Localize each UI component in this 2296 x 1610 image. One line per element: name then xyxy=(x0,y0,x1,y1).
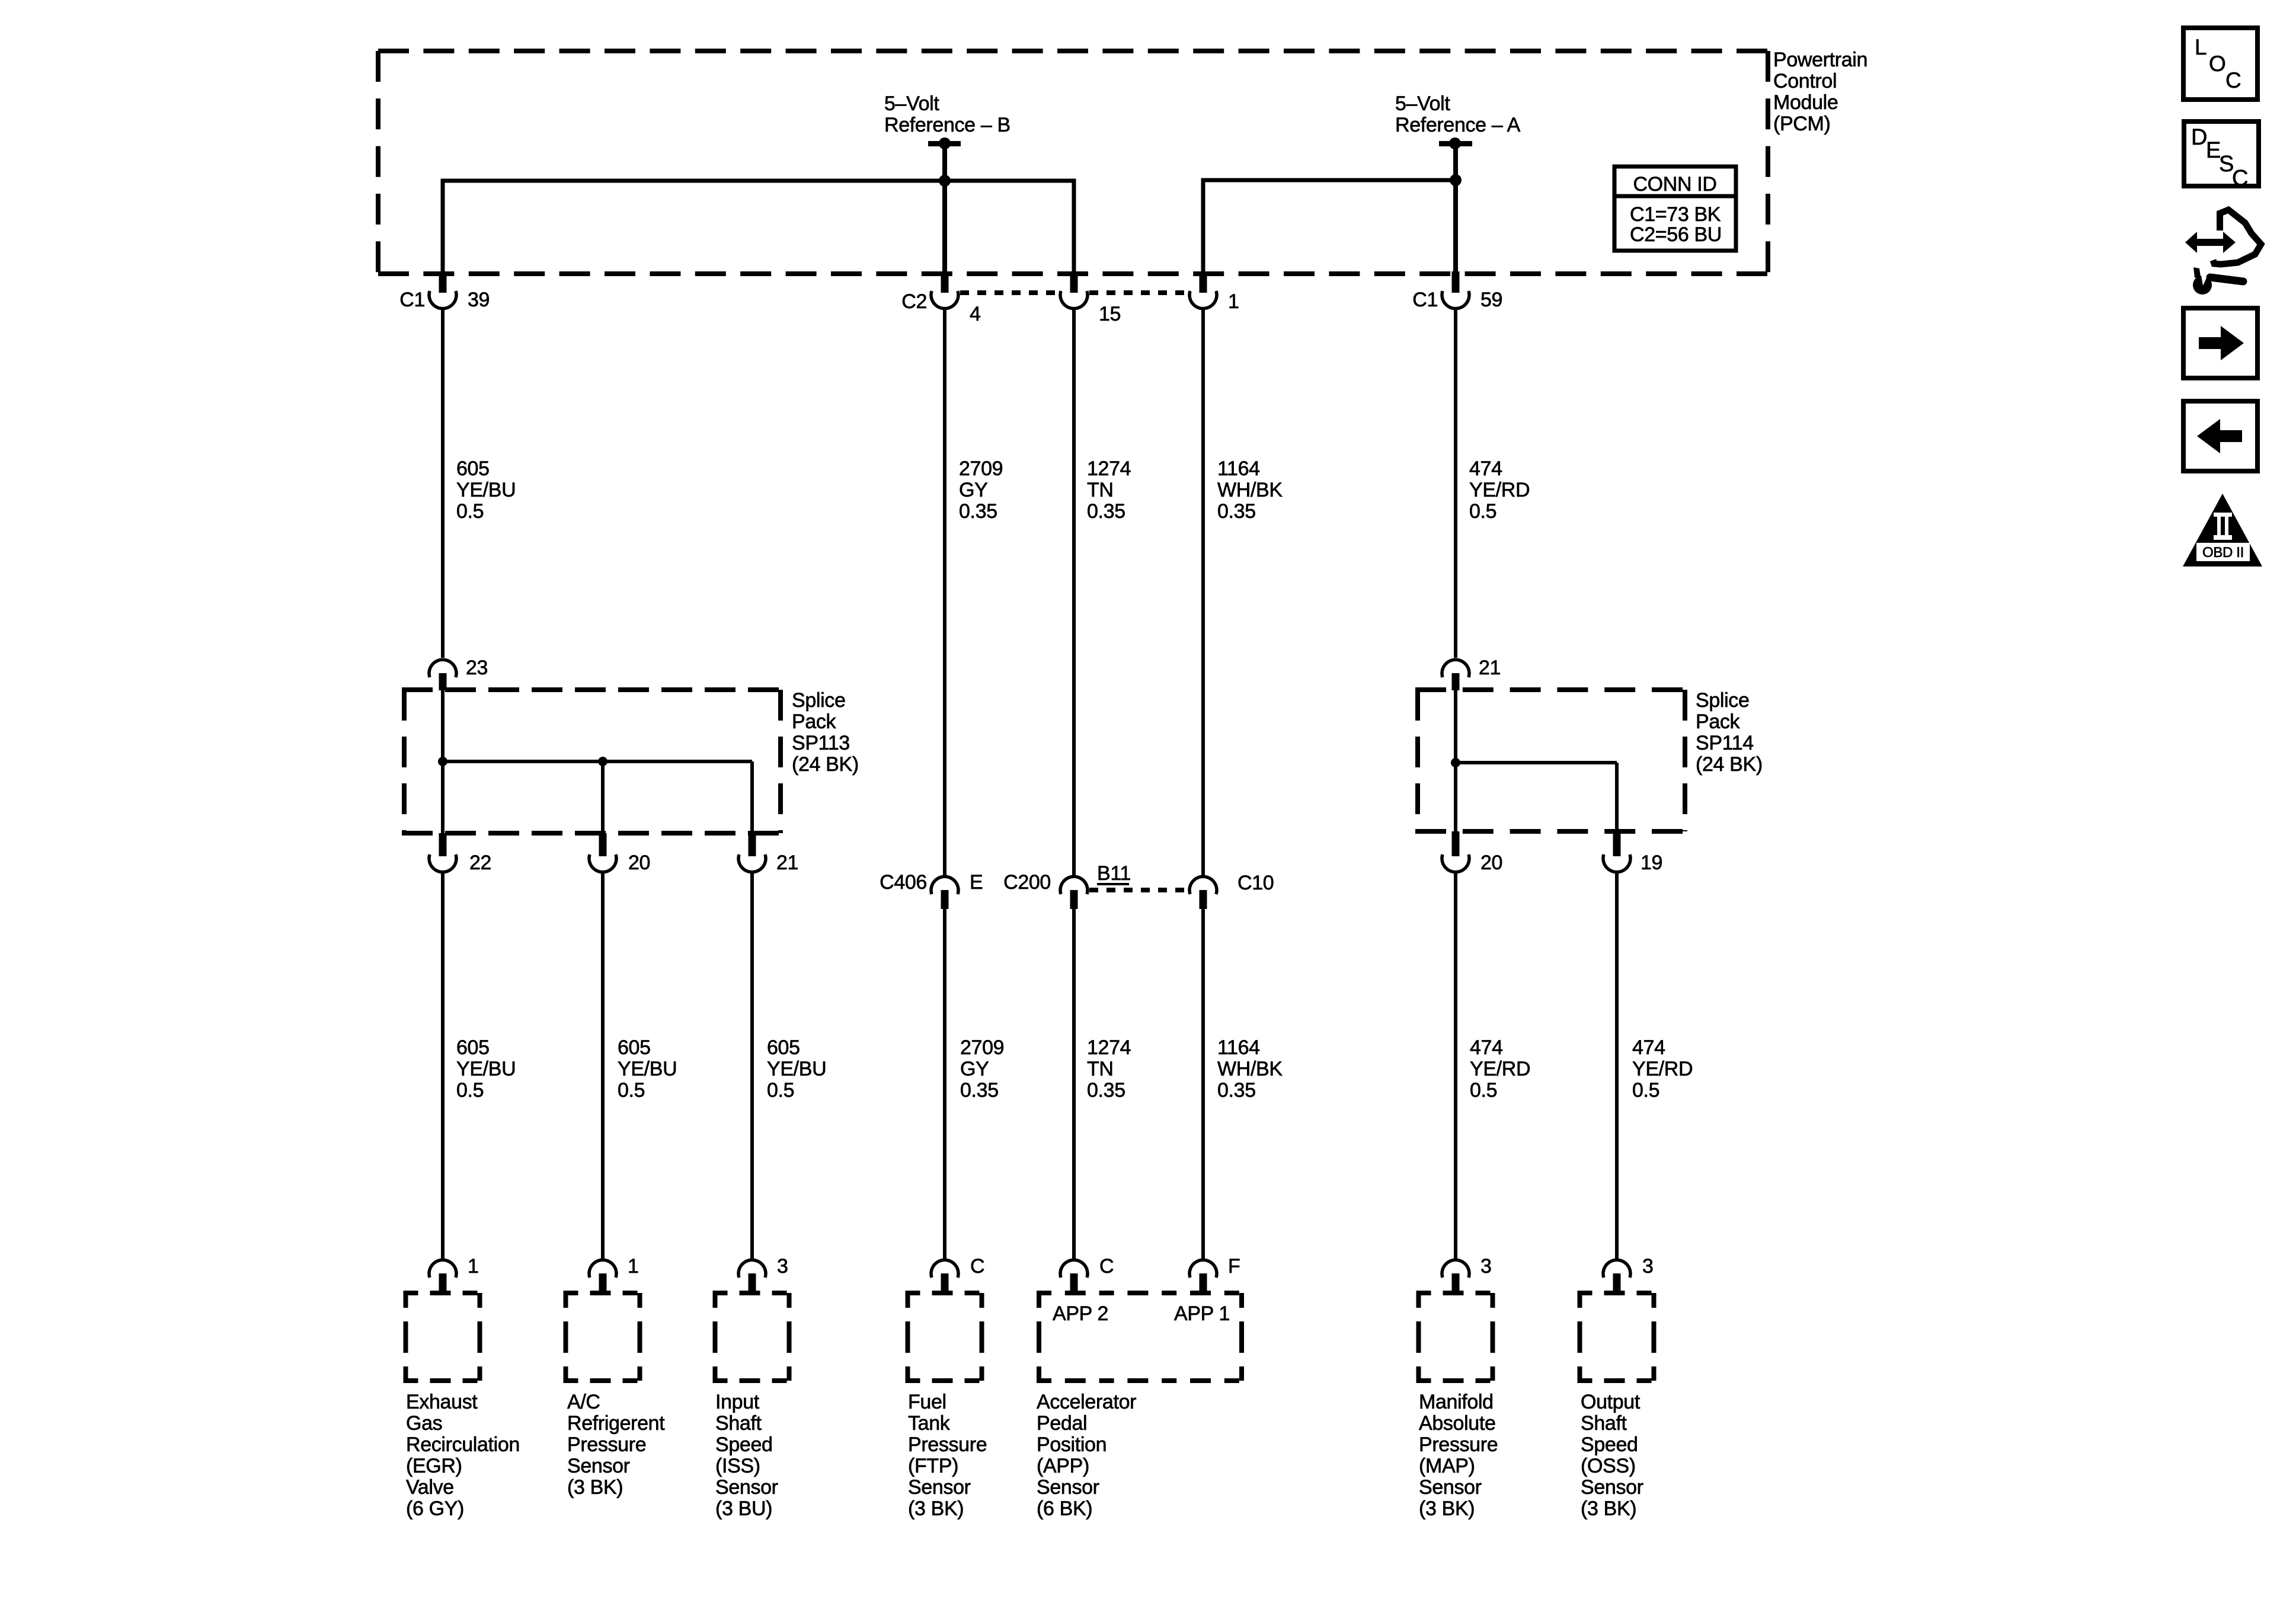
svg-text:C: C xyxy=(2232,166,2248,191)
svg-text:Recirculation: Recirculation xyxy=(406,1433,520,1456)
svg-text:39: 39 xyxy=(468,289,490,311)
svg-text:Accelerator: Accelerator xyxy=(1037,1391,1136,1413)
ISS sensor label xyxy=(715,1391,778,1520)
svg-text:YE/RD: YE/RD xyxy=(1469,479,1530,501)
svg-text:0.35: 0.35 xyxy=(1217,500,1256,523)
svg-text:0.35: 0.35 xyxy=(1087,500,1125,523)
svg-text:SP113: SP113 xyxy=(792,732,850,754)
svg-text:Gas: Gas xyxy=(406,1412,442,1435)
svg-text:(3 BK): (3 BK) xyxy=(908,1497,964,1520)
svg-text:WH/BK: WH/BK xyxy=(1217,1058,1283,1080)
inline connector C10 xyxy=(1189,876,1217,909)
wire label 605 YE/BU 0.5 (upper) xyxy=(456,457,516,523)
svg-text:Pack: Pack xyxy=(1696,710,1741,733)
splice pack SP114 dashed box xyxy=(1415,690,1687,831)
svg-text:474: 474 xyxy=(1470,1036,1503,1059)
svg-text:C: C xyxy=(2225,68,2241,92)
svg-text:21: 21 xyxy=(776,852,798,874)
wire label 1274 TN 0.35 (upper) xyxy=(1087,457,1131,523)
svg-text:C2: C2 xyxy=(901,290,927,313)
svg-text:(24 BK): (24 BK) xyxy=(792,753,859,776)
svg-text:(EGR): (EGR) xyxy=(406,1455,462,1477)
PCM connector pin 4 at x=1594 xyxy=(931,271,958,309)
Powertrain Control Module (PCM) dashed enclosure xyxy=(378,51,1768,274)
svg-text:Splice: Splice xyxy=(1696,689,1750,712)
svg-text:TN: TN xyxy=(1087,1058,1114,1080)
svg-text:B11: B11 xyxy=(1097,862,1131,885)
OBD II triangle icon xyxy=(2183,494,2262,566)
dotted connector link B11 to C10 xyxy=(1089,888,1188,892)
back arrow icon box xyxy=(2183,401,2257,471)
svg-text:(3 BK): (3 BK) xyxy=(567,1476,623,1499)
svg-text:Position: Position xyxy=(1037,1433,1107,1456)
wire label 474 YE/RD 0.5 (MAP) xyxy=(1470,1036,1530,1102)
svg-text:YE/RD: YE/RD xyxy=(1632,1058,1693,1080)
svg-text:474: 474 xyxy=(1632,1036,1665,1059)
wire label 1164 WH/BK 0.35 (lower) xyxy=(1217,1036,1283,1102)
svg-text:Sensor: Sensor xyxy=(1419,1476,1482,1499)
svg-text:Manifold: Manifold xyxy=(1419,1391,1494,1413)
svg-text:F: F xyxy=(1228,1255,1240,1278)
svg-text:(3 BU): (3 BU) xyxy=(715,1497,772,1520)
svg-text:(PCM): (PCM) xyxy=(1773,113,1830,135)
svg-text:(3 BK): (3 BK) xyxy=(1419,1497,1475,1520)
splice pack SP113 label xyxy=(792,689,859,776)
svg-text:23: 23 xyxy=(466,657,488,679)
5-Volt Reference B power feed symbol xyxy=(928,137,961,274)
CONN ID table xyxy=(1614,167,1736,251)
FTP sensor label xyxy=(908,1391,987,1520)
svg-text:3: 3 xyxy=(777,1255,788,1278)
EGR valve label xyxy=(406,1391,520,1520)
svg-text:Exhaust: Exhaust xyxy=(406,1391,478,1413)
svg-text:Shaft: Shaft xyxy=(715,1412,762,1435)
svg-text:Output: Output xyxy=(1581,1391,1641,1413)
splice output connector pin 19 xyxy=(1603,831,1630,872)
svg-text:605: 605 xyxy=(456,1036,490,1059)
svg-text:(OSS): (OSS) xyxy=(1581,1455,1636,1477)
wire: 5V ref B bus to pins 39 / 4 / 15 xyxy=(443,175,1074,274)
svg-text:YE/RD: YE/RD xyxy=(1470,1058,1530,1080)
wire label 1164 WH/BK 0.35 (upper) xyxy=(1217,457,1283,523)
svg-text:605: 605 xyxy=(456,457,490,480)
svg-text:C1: C1 xyxy=(1412,289,1438,311)
svg-text:C200: C200 xyxy=(1003,871,1051,894)
wire 1274 TN from 15 to C200 pin B11 xyxy=(1072,309,1076,876)
svg-text:Speed: Speed xyxy=(1581,1433,1638,1456)
svg-text:Absolute: Absolute xyxy=(1419,1412,1496,1435)
svg-text:Refrigerent: Refrigerent xyxy=(567,1412,665,1435)
svg-text:C2=56 BU: C2=56 BU xyxy=(1630,223,1722,246)
svg-text:0.5: 0.5 xyxy=(456,500,484,523)
wire 605 YE/BU from pin 20 to A/C sensor xyxy=(601,872,605,1260)
svg-text:Pressure: Pressure xyxy=(567,1433,646,1456)
DESC icon box xyxy=(2184,121,2259,191)
5-Volt Reference A power feed symbol xyxy=(1439,137,1472,274)
svg-text:Sensor: Sensor xyxy=(567,1455,630,1477)
svg-text:(MAP): (MAP) xyxy=(1419,1455,1475,1477)
svg-text:Shaft: Shaft xyxy=(1581,1412,1627,1435)
svg-text:3: 3 xyxy=(1480,1255,1492,1278)
svg-text:(6 GY): (6 GY) xyxy=(406,1497,464,1520)
svg-text:Reference – A: Reference – A xyxy=(1395,114,1521,136)
svg-text:TN: TN xyxy=(1087,479,1114,501)
svg-text:Tank: Tank xyxy=(908,1412,951,1435)
wire label 474 YE/RD 0.5 (OSS) xyxy=(1632,1036,1693,1102)
svg-text:Pedal: Pedal xyxy=(1037,1412,1087,1435)
svg-text:20: 20 xyxy=(628,852,650,874)
svg-text:0.5: 0.5 xyxy=(618,1079,645,1102)
device connector pin 3 xyxy=(738,1260,766,1293)
svg-text:19: 19 xyxy=(1641,852,1662,874)
svg-text:YE/BU: YE/BU xyxy=(618,1058,677,1080)
svg-text:0.35: 0.35 xyxy=(1217,1079,1256,1102)
splice pack SP113 dashed box xyxy=(402,690,783,833)
device connector pin C xyxy=(1060,1260,1088,1293)
OSS sensor label xyxy=(1581,1391,1643,1520)
svg-text:D: D xyxy=(2191,125,2207,150)
5-Volt Reference B label xyxy=(884,92,1011,136)
APP sensor box xyxy=(1037,1293,1244,1381)
svg-text:Valve: Valve xyxy=(406,1476,454,1499)
wire label 474 YE/RD 0.5 (upper) xyxy=(1469,457,1530,523)
svg-text:CONN ID: CONN ID xyxy=(1633,173,1716,196)
svg-text:22: 22 xyxy=(469,852,491,874)
wire label 1274 TN 0.35 (lower) xyxy=(1087,1036,1131,1102)
svg-text:Pack: Pack xyxy=(792,710,837,733)
svg-text:APP 1: APP 1 xyxy=(1174,1302,1230,1325)
svg-text:474: 474 xyxy=(1469,457,1502,480)
svg-text:C: C xyxy=(970,1255,984,1278)
svg-text:1274: 1274 xyxy=(1087,457,1131,480)
svg-text:1: 1 xyxy=(468,1255,479,1278)
splice pack SP113 connector pin 23 xyxy=(429,660,456,690)
svg-text:1164: 1164 xyxy=(1217,1036,1260,1059)
svg-text:O: O xyxy=(2209,52,2225,76)
wire 1164 WH/BK from 1 to C10 xyxy=(1201,309,1205,876)
inline connector C200 pin B11 xyxy=(1060,876,1088,909)
5-Volt Reference A label xyxy=(1395,92,1521,136)
PCM connector pin 59 at x=2456 xyxy=(1442,271,1469,309)
wire 474 YE/RD from pin 20 to MAP sensor xyxy=(1454,872,1457,1260)
svg-text:0.35: 0.35 xyxy=(960,1079,999,1102)
OSS sensor box xyxy=(1578,1293,1657,1381)
svg-text:APP 2: APP 2 xyxy=(1053,1302,1108,1325)
forward arrow icon box xyxy=(2183,308,2257,378)
wire 1164 WH/BK from C10 to APP sensor F xyxy=(1201,909,1205,1260)
SP113 internal bus wire xyxy=(438,690,752,833)
svg-text:(6 BK): (6 BK) xyxy=(1037,1497,1092,1520)
MAP sensor label xyxy=(1419,1391,1498,1520)
svg-text:1274: 1274 xyxy=(1087,1036,1131,1059)
splice output connector pin 21 xyxy=(738,833,766,872)
wire 474 YE/RD from pin 19 to OSS sensor xyxy=(1615,872,1619,1260)
svg-text:3: 3 xyxy=(1642,1255,1654,1278)
device connector pin 3 xyxy=(1442,1260,1469,1293)
svg-text:Splice: Splice xyxy=(792,689,846,712)
svg-text:20: 20 xyxy=(1480,852,1502,874)
PCM connector pin 15 at x=1812 xyxy=(1060,271,1088,309)
svg-text:Speed: Speed xyxy=(715,1433,773,1456)
svg-text:(APP): (APP) xyxy=(1037,1455,1089,1477)
svg-text:4: 4 xyxy=(970,303,981,325)
svg-text:1: 1 xyxy=(1228,290,1239,313)
EGR valve box xyxy=(404,1293,482,1381)
wire 605 YE/BU from pin 21 to ISS sensor xyxy=(750,872,754,1260)
svg-text:Pressure: Pressure xyxy=(1419,1433,1498,1456)
svg-text:E: E xyxy=(970,871,983,894)
svg-text:L: L xyxy=(2195,35,2207,59)
wire 2709 GY from pin E to FTP sensor xyxy=(943,909,946,1260)
svg-text:0.5: 0.5 xyxy=(1632,1079,1659,1102)
pin label B11 (underlined) xyxy=(1097,862,1131,885)
svg-text:1164: 1164 xyxy=(1217,457,1260,480)
svg-text:C: C xyxy=(1099,1255,1114,1278)
wire label 605 YE/BU 0.5 (A/C) xyxy=(618,1036,677,1102)
PCM label xyxy=(1773,49,1868,135)
wire label 605 YE/BU 0.5 (ISS) xyxy=(767,1036,826,1102)
device connector pin F xyxy=(1189,1260,1217,1293)
svg-text:GY: GY xyxy=(959,479,987,501)
A/C sensor label xyxy=(567,1391,665,1499)
svg-text:WH/BK: WH/BK xyxy=(1217,479,1283,501)
svg-text:0.35: 0.35 xyxy=(959,500,997,523)
shortcut (jump) icon with double arrow and wrench xyxy=(2185,210,2261,295)
dotted connector link 15 to 1 xyxy=(1089,290,1188,295)
svg-text:605: 605 xyxy=(767,1036,800,1059)
svg-text:5–Volt: 5–Volt xyxy=(1395,92,1450,115)
svg-text:(3 BK): (3 BK) xyxy=(1581,1497,1636,1520)
wire 2709 GY from C2:4 to C406 pin E xyxy=(943,309,946,876)
svg-text:Powertrain: Powertrain xyxy=(1773,49,1868,71)
MAP sensor box xyxy=(1416,1293,1495,1381)
svg-text:(ISS): (ISS) xyxy=(715,1455,760,1477)
svg-text:21: 21 xyxy=(1479,657,1501,679)
svg-text:Fuel: Fuel xyxy=(908,1391,946,1413)
A/C refrigerant pressure sensor box xyxy=(564,1293,642,1381)
device connector pin 1 xyxy=(589,1260,616,1293)
svg-text:Module: Module xyxy=(1773,91,1838,114)
svg-text:605: 605 xyxy=(618,1036,651,1059)
svg-text:C1: C1 xyxy=(399,289,425,311)
svg-text:2709: 2709 xyxy=(960,1036,1004,1059)
svg-text:YE/BU: YE/BU xyxy=(767,1058,826,1080)
svg-text:0.5: 0.5 xyxy=(767,1079,794,1102)
svg-text:C10: C10 xyxy=(1237,872,1274,894)
dotted connector link C2:4 to 15 xyxy=(960,290,1059,295)
device connector pin C xyxy=(931,1260,958,1293)
APP sensor label xyxy=(1037,1391,1136,1520)
svg-text:(24 BK): (24 BK) xyxy=(1696,753,1763,776)
splice pack SP114 label xyxy=(1696,689,1763,776)
splice output connector pin 22 xyxy=(429,833,456,872)
wire 474 YE/RD from C1:59 to SP114 pin 21 xyxy=(1454,309,1457,658)
svg-text:YE/BU: YE/BU xyxy=(456,1058,516,1080)
PCM connector pin 1 at x=2030 xyxy=(1189,271,1217,309)
svg-text:Sensor: Sensor xyxy=(1581,1476,1643,1499)
svg-text:SP114: SP114 xyxy=(1696,732,1754,754)
svg-text:0.5: 0.5 xyxy=(1469,500,1496,523)
svg-text:2709: 2709 xyxy=(959,457,1003,480)
wire 605 YE/BU from C1:39 to SP113 pin 23 xyxy=(441,309,445,658)
svg-text:Sensor: Sensor xyxy=(908,1476,971,1499)
wire label 2709 GY 0.35 (lower) xyxy=(960,1036,1004,1102)
wire 605 YE/BU from pin 22 to EGR valve xyxy=(441,872,445,1260)
wire label 605 YE/BU 0.5 (EGR) xyxy=(456,1036,516,1102)
svg-text:YE/BU: YE/BU xyxy=(456,479,516,501)
svg-text:15: 15 xyxy=(1099,303,1121,325)
device connector pin 1 xyxy=(429,1260,456,1293)
svg-text:Pressure: Pressure xyxy=(908,1433,987,1456)
splice output connector pin 20 xyxy=(589,833,616,872)
svg-text:(FTP): (FTP) xyxy=(908,1455,958,1477)
SP114 internal bus wire xyxy=(1451,690,1617,831)
wire 1274 TN from B11 to APP sensor C xyxy=(1072,909,1076,1260)
LOC icon box xyxy=(2183,28,2257,100)
device connector pin 3 xyxy=(1603,1260,1630,1293)
svg-text:Sensor: Sensor xyxy=(715,1476,778,1499)
wire: 5V ref A bus to pins 1 / 59 xyxy=(1203,174,1462,274)
svg-text:C1=73 BK: C1=73 BK xyxy=(1630,203,1721,226)
splice pack SP114 connector pin 21 xyxy=(1442,660,1469,690)
svg-text:0.5: 0.5 xyxy=(456,1079,484,1102)
svg-text:Input: Input xyxy=(715,1391,760,1413)
svg-text:0.35: 0.35 xyxy=(1087,1079,1125,1102)
svg-text:C406: C406 xyxy=(880,871,927,894)
FTP sensor box xyxy=(906,1293,984,1381)
wire label 2709 GY 0.35 (upper) xyxy=(959,457,1003,523)
svg-text:GY: GY xyxy=(960,1058,989,1080)
svg-text:Reference – B: Reference – B xyxy=(884,114,1011,136)
svg-text:Control: Control xyxy=(1773,70,1837,92)
svg-text:5–Volt: 5–Volt xyxy=(884,92,939,115)
svg-text:59: 59 xyxy=(1480,289,1502,311)
ISS sensor box xyxy=(713,1293,792,1381)
svg-text:Sensor: Sensor xyxy=(1037,1476,1099,1499)
svg-text:OBD II: OBD II xyxy=(2202,545,2244,561)
svg-text:A/C: A/C xyxy=(567,1391,600,1413)
splice output connector pin 20 xyxy=(1442,831,1469,872)
PCM connector pin 39 at x=747 xyxy=(429,271,456,309)
svg-text:0.5: 0.5 xyxy=(1470,1079,1497,1102)
svg-text:1: 1 xyxy=(628,1255,639,1278)
inline connector C406 pin E xyxy=(931,876,958,909)
